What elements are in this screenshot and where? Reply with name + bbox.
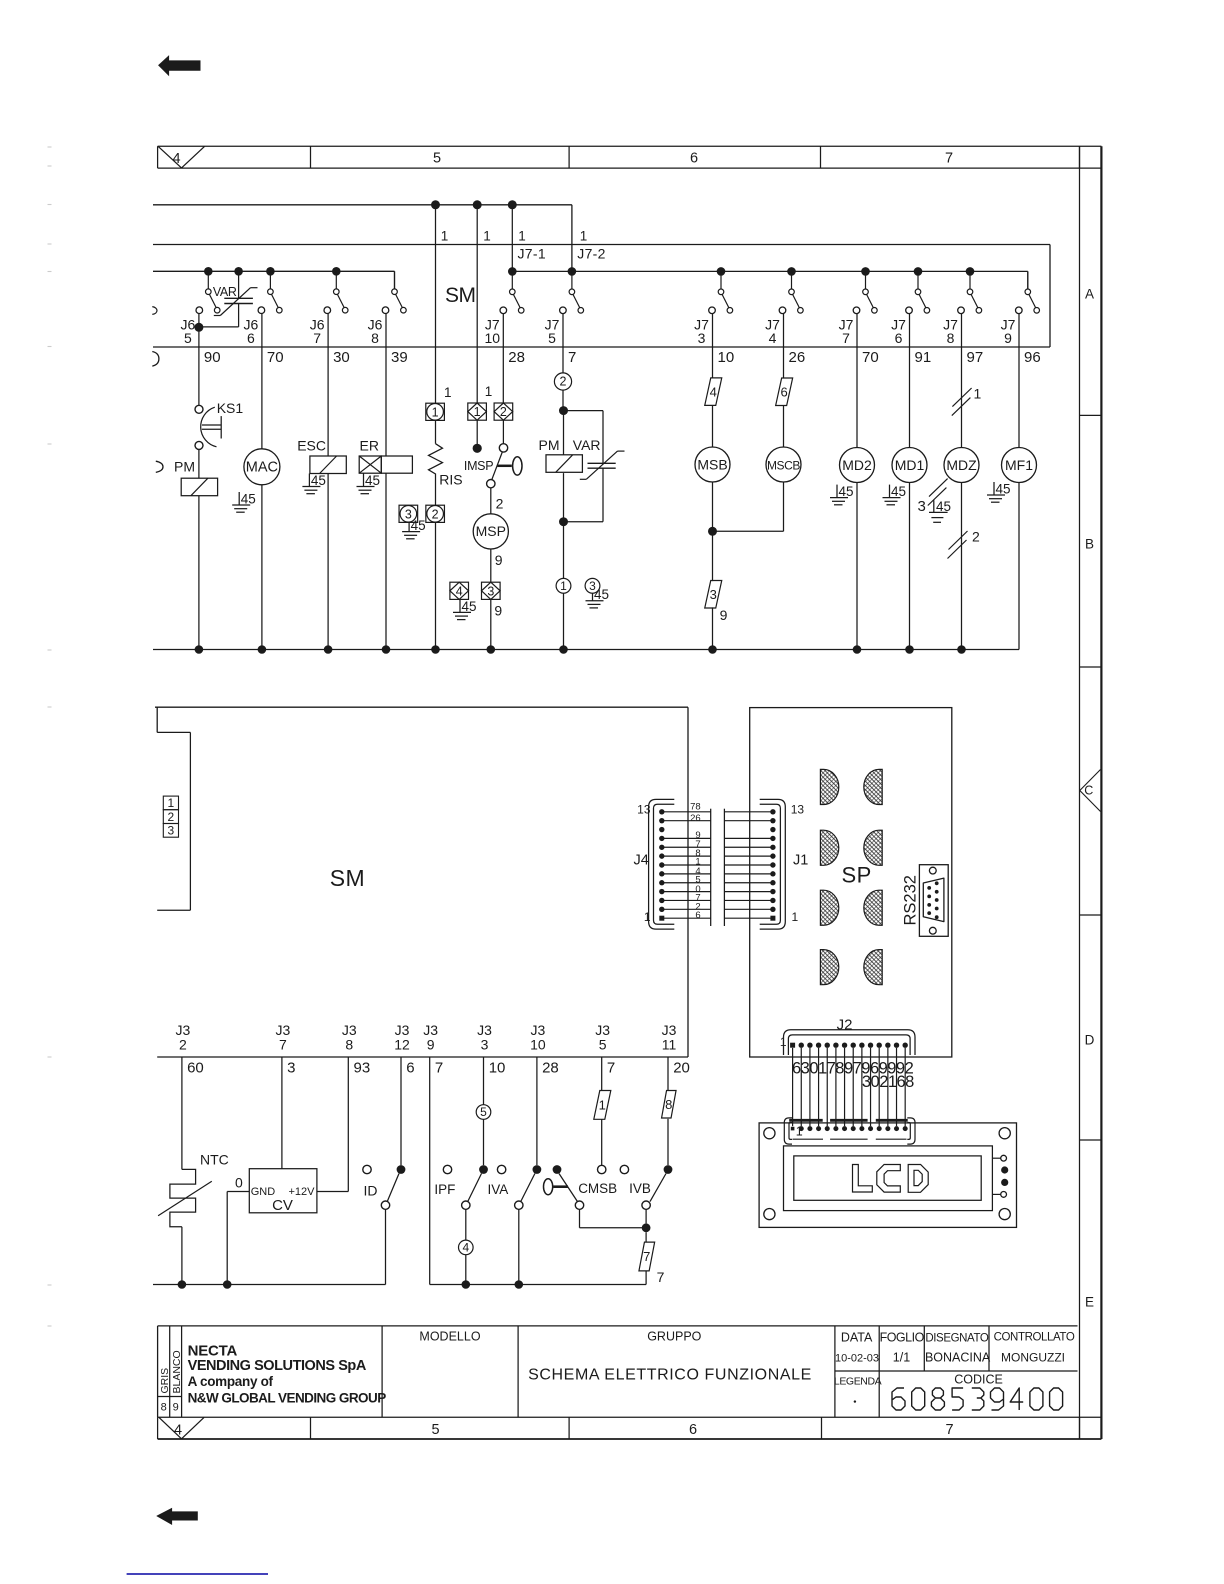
- parallelogram 1: [594, 1091, 611, 1120]
- svg-text:45: 45: [311, 473, 326, 488]
- svg-text:1: 1: [168, 796, 175, 810]
- motor MSP: [473, 514, 508, 549]
- SM board outline top: [153, 245, 1050, 348]
- wire J7-8 / MDZ column: [961, 314, 963, 650]
- svg-text:3: 3: [710, 587, 717, 602]
- svg-text:28: 28: [542, 1060, 559, 1077]
- svg-text:SP: SP: [842, 863, 872, 888]
- bus 0V left section: [153, 1280, 386, 1289]
- motor MF1: [1002, 448, 1037, 483]
- svg-text:3: 3: [698, 330, 706, 346]
- ground 45 circled3: [586, 587, 610, 608]
- ground 45 MAC: [232, 492, 256, 513]
- parallelogram 6: [776, 378, 793, 406]
- svg-text:FOGLIO: FOGLIO: [880, 1331, 925, 1345]
- svg-text:J1: J1: [793, 853, 808, 869]
- svg-text:4: 4: [174, 1423, 182, 1439]
- svg-text:1: 1: [483, 229, 491, 244]
- svg-text:20: 20: [673, 1060, 690, 1077]
- svg-text:26: 26: [789, 349, 806, 366]
- title block left codes: [159, 1350, 183, 1413]
- LCD display frame: [784, 1146, 993, 1211]
- svg-text:6: 6: [895, 330, 903, 346]
- parallelogram 4: [705, 378, 722, 406]
- svg-text:45: 45: [594, 587, 609, 602]
- motor MD2: [840, 448, 875, 483]
- svg-text:CV: CV: [272, 1197, 293, 1214]
- net labels J2 pins: [792, 1060, 914, 1092]
- svg-text:3: 3: [168, 824, 175, 838]
- svg-text:7: 7: [607, 1060, 615, 1077]
- svg-text:1: 1: [780, 1035, 787, 1049]
- svg-text:IVB: IVB: [629, 1181, 651, 1196]
- svg-text:MD2: MD2: [842, 457, 872, 473]
- wire J7-4 / MSCB column: [783, 314, 785, 532]
- bus 0V right section: [430, 1280, 646, 1289]
- svg-text:VAR: VAR: [573, 437, 601, 453]
- resistor RIS: [429, 444, 443, 481]
- svg-text:CMSB: CMSB: [578, 1181, 617, 1196]
- svg-text:CODICE: CODICE: [954, 1373, 1003, 1387]
- LCD module: [759, 1123, 1016, 1228]
- svg-text:5: 5: [480, 1105, 487, 1119]
- motor MAC: [244, 449, 280, 485]
- relay coil PM J7-5: [546, 455, 582, 473]
- svg-text:90: 90: [204, 349, 221, 366]
- wire J7-5 / PM VAR column: [559, 314, 568, 650]
- label J6-7 / net 30: [310, 317, 350, 367]
- speaker pads hatched: [820, 769, 882, 984]
- svg-text:ER: ER: [360, 438, 379, 454]
- svg-text:70: 70: [267, 349, 284, 366]
- svg-text:MSB: MSB: [697, 456, 727, 472]
- label J3-11 / net 20: [662, 1022, 690, 1077]
- svg-text:RIS: RIS: [439, 472, 462, 488]
- ground 45 MD2: [830, 484, 854, 505]
- pin symbol diamond 4 grounded: [450, 582, 469, 599]
- wire J3-5 column: [598, 1057, 606, 1174]
- svg-text:45: 45: [365, 473, 380, 488]
- svg-text:8: 8: [345, 1037, 353, 1053]
- motor MSB: [695, 447, 730, 482]
- svg-text:28: 28: [508, 349, 525, 366]
- switch J7-8: [958, 271, 982, 313]
- svg-text:45: 45: [839, 484, 854, 499]
- svg-text:2: 2: [432, 507, 439, 521]
- svg-text:13: 13: [637, 803, 651, 817]
- varistor VAR (J6): [199, 274, 258, 327]
- svg-text:1: 1: [444, 385, 452, 400]
- LCD header connector: [784, 1118, 915, 1144]
- cable marker slashes 1 above MDZ: [952, 386, 982, 416]
- svg-text:J4: J4: [634, 853, 649, 869]
- svg-text:1: 1: [518, 229, 526, 244]
- ground 45 pin3: [402, 518, 426, 539]
- svg-text:MF1: MF1: [1005, 457, 1033, 473]
- svg-text:4: 4: [456, 584, 463, 598]
- key switch CMSB: [544, 1165, 647, 1228]
- svg-text:6: 6: [695, 910, 700, 921]
- switch J7-9: [1016, 271, 1040, 313]
- LCD outline letters: [853, 1165, 929, 1193]
- relay coil ESC: [310, 456, 346, 474]
- switch J7-3: [709, 271, 733, 313]
- wire MAC to bus: [261, 485, 263, 650]
- wire J7-6 / MD1 column: [909, 314, 911, 650]
- svg-text:BLANCO: BLANCO: [171, 1350, 183, 1393]
- title block: [158, 1326, 1078, 1417]
- ground 45 MF1: [987, 482, 1011, 503]
- label J3-3 / net 10: [477, 1022, 505, 1077]
- pin symbol diamond 2: [494, 403, 513, 420]
- svg-text:13: 13: [791, 803, 805, 817]
- svg-text:2: 2: [179, 1037, 187, 1053]
- switch J6-5: [196, 271, 220, 313]
- switch ID: [363, 1165, 406, 1284]
- label J3-2 / net 60: [176, 1022, 204, 1077]
- field DISEGNATO: [925, 1333, 991, 1365]
- power supply CV: [227, 1169, 317, 1285]
- wire J3-3 / PF column: [483, 1057, 485, 1165]
- ground 45 diamond4: [453, 599, 477, 620]
- svg-text:3: 3: [918, 498, 926, 515]
- svg-text:SCHEMA ELETTRICO FUNZIONALE: SCHEMA ELETTRICO FUNZIONALE: [528, 1367, 812, 1384]
- switch J7-4: [779, 271, 803, 313]
- label J3-10 / net 28: [530, 1022, 559, 1077]
- relay coil PM: [181, 478, 217, 496]
- svg-text:LEGENDA: LEGENDA: [834, 1376, 882, 1388]
- svg-text:45: 45: [996, 482, 1011, 497]
- svg-text:B: B: [1085, 537, 1094, 552]
- field DATA: [835, 1331, 879, 1365]
- svg-text:45: 45: [462, 599, 477, 614]
- bus J7 with junctions: [508, 267, 1028, 289]
- switch PF: [434, 1165, 488, 1240]
- svg-text:4: 4: [710, 384, 717, 399]
- varistor VAR branch J7-5: [564, 411, 625, 522]
- circled 3 grounded J7-5: [585, 578, 600, 593]
- switch J6-7: [324, 271, 348, 313]
- circled 5: [476, 1105, 491, 1120]
- pin symbol diamond 3 MSP: [482, 582, 501, 599]
- svg-text:45: 45: [241, 492, 256, 507]
- LCD indicator leds: [992, 1155, 1008, 1197]
- bus J6 with junctions: [153, 267, 395, 289]
- switch J6-6: [258, 271, 282, 313]
- label J7-6 / net 91: [891, 317, 931, 367]
- svg-text:PM: PM: [174, 459, 195, 475]
- svg-text:MSCB: MSCB: [767, 458, 800, 472]
- spare contact VB: [620, 1165, 628, 1173]
- label J7-3 / net 10: [694, 317, 734, 367]
- switch J7-5: [560, 271, 584, 313]
- svg-text:93: 93: [354, 1060, 371, 1077]
- wire J7-10 / MSP column: [491, 314, 504, 650]
- svg-text:A company of: A company of: [188, 1374, 274, 1389]
- svg-text:ID: ID: [364, 1182, 378, 1198]
- wire J3-12 to ID: [400, 1057, 402, 1165]
- svg-text:SM: SM: [330, 865, 366, 891]
- svg-text:10: 10: [485, 330, 501, 346]
- svg-text:MAC: MAC: [246, 460, 278, 476]
- switch J7-7: [853, 271, 877, 313]
- svg-text:3: 3: [481, 1037, 489, 1053]
- svg-text:7: 7: [945, 1422, 953, 1438]
- svg-text:2: 2: [168, 810, 175, 824]
- label J7-9 / net 96: [1001, 317, 1041, 367]
- svg-text:39: 39: [391, 349, 408, 366]
- connector RS232 DB9: [902, 865, 949, 937]
- svg-text:4: 4: [462, 1241, 469, 1255]
- svg-text:4: 4: [769, 330, 777, 346]
- spare contact VA: [497, 1165, 505, 1173]
- pin 1 labels on line B: [441, 229, 588, 244]
- pin symbol diamond 1: [468, 403, 487, 420]
- wire J7-3 / MSB column: [708, 314, 717, 650]
- svg-text:7: 7: [435, 1060, 443, 1077]
- code number 608539400: [892, 1388, 1063, 1410]
- svg-text:9: 9: [494, 602, 502, 618]
- svg-text:N&W GLOBAL VENDING GROUP: N&W GLOBAL VENDING GROUP: [188, 1391, 387, 1406]
- wire J6-8 column / ER: [385, 314, 387, 650]
- svg-text:7: 7: [643, 1249, 650, 1264]
- svg-text:91: 91: [915, 349, 932, 366]
- connector J1 shell: [760, 799, 809, 929]
- ground 45 ESC: [302, 473, 326, 494]
- wire J7-1 feed: [511, 207, 513, 269]
- neutral bus with junctions: [153, 645, 1019, 654]
- connector CN pins 1-2-3: [163, 796, 178, 838]
- svg-text:8: 8: [905, 1073, 914, 1091]
- wire parallelogram7 to bus: [645, 1271, 647, 1285]
- ribbon wires J2 to LCD: [793, 1048, 906, 1126]
- svg-text:C: C: [1084, 784, 1093, 798]
- svg-text:5: 5: [599, 1037, 607, 1053]
- svg-text:1/1: 1/1: [893, 1351, 910, 1365]
- svg-text:IPF: IPF: [434, 1182, 455, 1197]
- svg-text:E: E: [1085, 1295, 1094, 1310]
- svg-text:12: 12: [394, 1037, 410, 1053]
- svg-text:10-02-03: 10-02-03: [835, 1353, 879, 1365]
- label J3-7 / net 3: [276, 1022, 296, 1077]
- svg-text:ESC: ESC: [297, 438, 326, 454]
- svg-text:2: 2: [560, 375, 567, 389]
- svg-text:3: 3: [287, 1060, 295, 1077]
- svg-text:SM: SM: [445, 284, 476, 307]
- svg-text:7: 7: [842, 330, 850, 346]
- motor MSCB: [766, 447, 801, 482]
- parallelogram 7: [639, 1242, 655, 1271]
- svg-text:KS1: KS1: [217, 400, 244, 416]
- svg-text:1: 1: [441, 229, 449, 244]
- label J3-8 / net 93: [342, 1022, 370, 1077]
- svg-text:0: 0: [235, 1175, 243, 1191]
- svg-text:26: 26: [690, 813, 701, 824]
- svg-text:CONTROLLATO: CONTROLLATO: [994, 1332, 1075, 1344]
- motor MDZ: [944, 448, 979, 483]
- buzzer ER: [359, 456, 412, 473]
- svg-text:1: 1: [796, 1125, 803, 1139]
- company name NECTA: [188, 1343, 387, 1406]
- svg-text:D: D: [1085, 1033, 1095, 1048]
- svg-text:MSP: MSP: [476, 523, 506, 539]
- switch J6-8: [382, 271, 406, 313]
- svg-text:4: 4: [172, 151, 180, 167]
- SP board outline: [750, 708, 952, 1057]
- svg-text:60: 60: [187, 1060, 204, 1077]
- svg-text:45: 45: [936, 499, 951, 514]
- harness wires J4 to J1: [662, 802, 773, 927]
- svg-text:BONACINA: BONACINA: [925, 1351, 991, 1365]
- svg-text:6: 6: [406, 1060, 414, 1077]
- connector J2 shell: [780, 1017, 915, 1056]
- svg-text:97: 97: [967, 349, 984, 366]
- svg-text:7: 7: [313, 330, 321, 346]
- label J7-7 / net 70: [839, 317, 879, 367]
- svg-text:5: 5: [184, 330, 192, 346]
- switch J7-6: [906, 271, 930, 313]
- wire diamond-1 column: [473, 205, 482, 453]
- wire J3-9 long: [429, 1057, 431, 1285]
- svg-text:78: 78: [690, 802, 701, 813]
- svg-text:1: 1: [644, 910, 651, 924]
- wire MSB-MSCB link: [713, 530, 784, 532]
- cable marker slashes 2 below MDZ: [948, 529, 981, 559]
- svg-text:7: 7: [657, 1269, 665, 1285]
- svg-text:10: 10: [489, 1060, 506, 1077]
- svg-text:6: 6: [690, 151, 698, 167]
- wire J6-6 column / MAC: [261, 314, 263, 449]
- wire J3-2 / NTC column: [181, 1057, 183, 1285]
- ground 3/45 MDZ: [918, 479, 952, 523]
- svg-text:GRIS: GRIS: [159, 1368, 171, 1394]
- label J6-6 / net 70: [244, 317, 284, 367]
- svg-text:VENDING SOLUTIONS SpA: VENDING SOLUTIONS SpA: [188, 1358, 367, 1374]
- svg-text:6: 6: [689, 1422, 697, 1438]
- wire J3-10 / VA column: [536, 1057, 538, 1165]
- svg-text:1: 1: [974, 386, 982, 402]
- pin symbol 2 (circle): [426, 505, 445, 522]
- field FOGLIO: [880, 1331, 925, 1365]
- svg-text:30: 30: [333, 349, 350, 366]
- label J3-12 / net 6: [394, 1022, 414, 1077]
- svg-text:1: 1: [485, 384, 493, 399]
- connector J4 shell: [634, 799, 675, 929]
- field LEGENDA: [834, 1376, 882, 1403]
- svg-text:J7-2: J7-2: [577, 246, 605, 262]
- svg-text:70: 70: [862, 349, 879, 366]
- bus L1 top feed with junctions: [153, 200, 572, 271]
- svg-text:IVA: IVA: [488, 1182, 509, 1197]
- parallelogram 3: [705, 581, 722, 609]
- svg-text:IMSP: IMSP: [464, 459, 493, 473]
- svg-text:10: 10: [718, 349, 735, 366]
- label J3-9 / net 7: [423, 1022, 443, 1077]
- key switch IMSP: [464, 444, 522, 488]
- svg-text:9: 9: [427, 1037, 435, 1053]
- circled 2 J7-5: [554, 373, 571, 390]
- switch VA: [515, 1165, 542, 1284]
- svg-text:7: 7: [568, 349, 576, 366]
- thermal switch KS1: [195, 400, 243, 449]
- svg-text:MODELLO: MODELLO: [419, 1330, 480, 1344]
- svg-text:8: 8: [665, 1097, 672, 1112]
- svg-text:9: 9: [173, 1402, 179, 1414]
- svg-text:96: 96: [1024, 349, 1041, 366]
- svg-text:NTC: NTC: [200, 1151, 229, 1167]
- switch J7-10: [500, 271, 524, 313]
- marker arrow top-left: [159, 56, 200, 75]
- svg-text:PM: PM: [539, 437, 560, 453]
- thermistor NTC: [158, 1151, 229, 1227]
- svg-text:6: 6: [781, 384, 788, 399]
- label J7-10 / net 28: [485, 317, 525, 367]
- svg-text:5: 5: [548, 330, 556, 346]
- svg-text:A: A: [1085, 287, 1094, 302]
- svg-text:6: 6: [247, 330, 255, 346]
- label J6-5 / net 90: [181, 317, 221, 367]
- svg-text:8: 8: [371, 330, 379, 346]
- svg-text:9: 9: [1004, 330, 1012, 346]
- wire J3-8 to CV +12V: [317, 1057, 348, 1192]
- svg-text:9: 9: [720, 607, 728, 623]
- field CONTROLLATO: [994, 1332, 1075, 1365]
- svg-text:2: 2: [500, 405, 507, 419]
- svg-text:5: 5: [433, 151, 441, 167]
- ground 45 ER: [357, 473, 381, 494]
- svg-text:J2: J2: [837, 1017, 853, 1034]
- svg-text:45: 45: [891, 484, 906, 499]
- svg-text:7: 7: [945, 151, 953, 167]
- svg-text:8: 8: [947, 330, 955, 346]
- ground 45 MD1: [883, 484, 907, 505]
- switch VB: [642, 1165, 673, 1242]
- svg-text:7: 7: [279, 1037, 287, 1053]
- svg-text:VAR: VAR: [213, 285, 237, 299]
- pin symbol 1 (circle): [426, 403, 445, 420]
- svg-text:2: 2: [972, 529, 980, 545]
- SM board outline main: [155, 707, 688, 1057]
- wire J3-11 / VB column: [667, 1057, 669, 1165]
- wire RIS column: [435, 205, 437, 650]
- label J7-5 / net 7: [545, 317, 577, 367]
- label J3-5 / net 7: [595, 1022, 615, 1077]
- svg-text:9: 9: [495, 552, 503, 568]
- circled 1 J7-5: [556, 578, 571, 593]
- svg-text:45: 45: [411, 518, 426, 533]
- svg-text:DATA: DATA: [841, 1331, 873, 1345]
- wire J6-5 column: [194, 314, 203, 650]
- parallelogram 8: [662, 1091, 677, 1119]
- svg-text:MONGUZZI: MONGUZZI: [1001, 1351, 1065, 1365]
- svg-text:8: 8: [161, 1402, 167, 1414]
- svg-text:1: 1: [792, 910, 799, 924]
- svg-text:1: 1: [599, 1098, 606, 1113]
- svg-text:1: 1: [474, 405, 481, 419]
- svg-text:MD1: MD1: [895, 457, 925, 473]
- svg-text:GRUPPO: GRUPPO: [647, 1330, 701, 1344]
- motor MD1: [892, 448, 927, 483]
- wire J7-7 / MD2 column: [856, 314, 858, 650]
- svg-text:RS232: RS232: [902, 875, 920, 925]
- svg-text:10: 10: [530, 1037, 546, 1053]
- pin symbol 3 (circle) grounded: [399, 505, 418, 522]
- marker arrow bottom-left: [157, 1509, 197, 1525]
- svg-text:1: 1: [560, 579, 567, 593]
- label J7-4 / net 26: [765, 317, 805, 367]
- svg-text:3: 3: [487, 584, 494, 598]
- svg-text:2: 2: [496, 496, 504, 512]
